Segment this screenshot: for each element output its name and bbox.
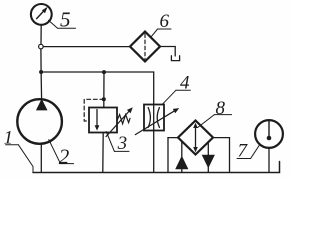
- cooler frame left drop: [167, 138, 169, 173]
- spring of valve 3: [117, 115, 130, 124]
- throttle valve DR4: [144, 105, 164, 131]
- node: gauge tap (open circle): [39, 44, 44, 49]
- pump N2: [17, 99, 62, 144]
- wire: tap node down to main junction: [40, 49, 42, 72]
- cooler heat-flow double arrow: [193, 123, 198, 153]
- check valve branch right (wire): [207, 142, 209, 172]
- label 1: [4, 128, 34, 172]
- wire: branch down to relief valve 3: [103, 72, 105, 107]
- thermometer T7: [255, 120, 283, 148]
- label 2: [49, 140, 74, 169]
- label 4: [163, 73, 191, 104]
- svg-text:1: 1: [4, 128, 14, 149]
- label 7: [237, 141, 260, 162]
- wire: thermometer to return line: [268, 148, 270, 173]
- wire: main pressure line B: [41, 71, 154, 73]
- check valve branch left (wire): [181, 141, 183, 172]
- wire: filter outlet to drain: [160, 47, 175, 57]
- svg-text:3: 3: [117, 133, 128, 154]
- cooler AT8: frame left stub: [168, 137, 178, 139]
- return line (tank line): [33, 162, 280, 173]
- relief valve KP3: [89, 108, 117, 133]
- label 5: [48, 8, 75, 32]
- wire: upper line to filter: [43, 46, 130, 48]
- node: pilot tap: [102, 97, 106, 101]
- check valve triangle down: [202, 155, 215, 169]
- wire: valve 3 outlet to return line: [102, 133, 104, 173]
- cooler diamond: [178, 121, 213, 155]
- svg-text:2: 2: [59, 144, 70, 168]
- node: junction at pump riser: [39, 70, 43, 74]
- check valve triangle up: [175, 156, 188, 170]
- adjustment arrow of valve 4: [135, 108, 179, 135]
- pilot line (dashed): [84, 99, 104, 121]
- wire: line B down through throttle 4 to return: [153, 72, 155, 172]
- label 6: [151, 11, 171, 38]
- filter F6: [130, 32, 160, 62]
- label 8: [198, 98, 232, 128]
- drain/tank symbol: [171, 56, 179, 61]
- wire: gauge down to tap node: [40, 25, 42, 44]
- label 3: [106, 132, 129, 154]
- node: junction to relief valve branch: [102, 70, 106, 74]
- adjustment arrow of valve 3: [106, 107, 133, 136]
- svg-text:8: 8: [216, 98, 226, 119]
- cooler frame right drop: [229, 138, 231, 173]
- cooler frame right stub: [213, 137, 230, 139]
- pressure gauge MN5: [31, 4, 52, 25]
- wire: pump drain to return line: [40, 144, 42, 173]
- wire: junction down to pump: [40, 72, 43, 99]
